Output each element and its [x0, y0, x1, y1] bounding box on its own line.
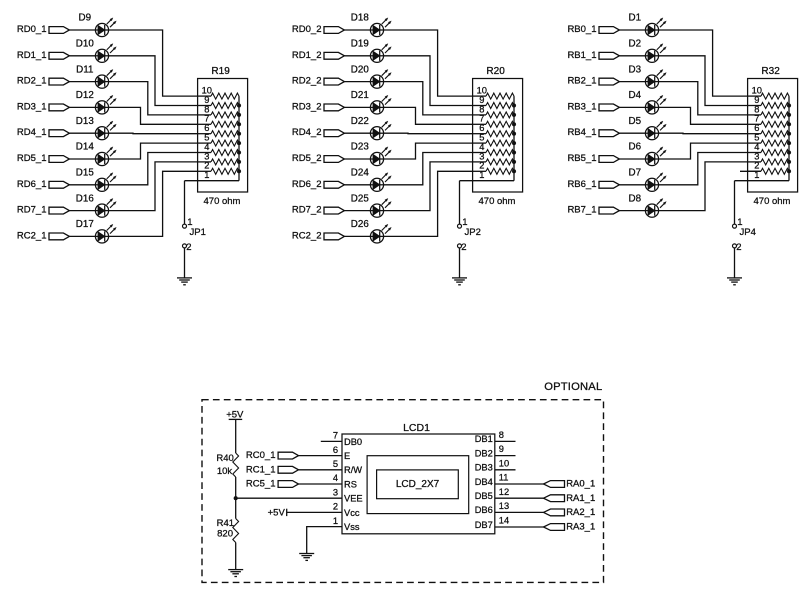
- net label RC0_1: [246, 450, 276, 461]
- LCD1 pin 2 number: [333, 502, 338, 512]
- port connector RA2_1: [544, 509, 565, 516]
- wire D24 to R20 pin 4: [384, 153, 473, 185]
- svg-text:6: 6: [333, 445, 338, 455]
- R32 resistor element pin 4: [748, 150, 789, 156]
- net label RB4_1: [567, 127, 596, 138]
- LCD1 pin 13 name DB6: [475, 505, 493, 515]
- svg-text:RD1_1: RD1_1: [17, 50, 47, 61]
- junction R32 pin 6: [787, 132, 791, 136]
- wire R41 to ground: [235, 543, 237, 570]
- junction R19 pin 9: [237, 104, 241, 108]
- net label RC5_1: [246, 479, 276, 490]
- svg-text:RD0_2: RD0_2: [292, 24, 322, 35]
- LCD display area outline: [367, 456, 469, 514]
- wire +5V to LCD1 pin 2 Vcc: [287, 511, 342, 513]
- R20 resistor element pin 6: [473, 131, 514, 137]
- net label RD4_2: [292, 127, 322, 138]
- junction R32 pin 4: [787, 151, 791, 155]
- LCD1 pin 5 number: [333, 459, 338, 469]
- net label RD6_1: [17, 179, 47, 190]
- wire LCD1 pin 13 to RA2_1: [495, 511, 544, 513]
- wire +5V to R40: [235, 419, 237, 453]
- port connector RB7_1: [599, 207, 619, 214]
- label JP2: [465, 227, 481, 238]
- wire D23 to R20 pin 5: [384, 143, 473, 159]
- net label RD1_2: [292, 50, 322, 61]
- LCD1 pin 12 name DB5: [475, 491, 493, 501]
- svg-text:LCD1: LCD1: [403, 422, 430, 434]
- port connector RB1_1: [599, 52, 619, 59]
- LED D20: [351, 64, 391, 88]
- svg-text:RD3_2: RD3_2: [292, 101, 322, 112]
- svg-text:+5V: +5V: [268, 508, 286, 519]
- port connector RB0_1: [599, 27, 619, 34]
- wire RD6_2 to D24: [344, 184, 370, 186]
- svg-text:VEE: VEE: [344, 494, 363, 504]
- ground: [727, 278, 742, 285]
- junction R19 pin 4: [237, 151, 241, 155]
- LCD1 pin 7 number: [333, 431, 338, 441]
- R20 resistor element pin 5: [473, 140, 514, 146]
- wire RD6_1 to D15: [69, 184, 95, 186]
- label JP4: [740, 227, 756, 238]
- wire D2 to R32 pin 9: [659, 56, 748, 106]
- LCD1 pin 9 name DB2: [475, 448, 493, 458]
- LED D18: [351, 13, 391, 37]
- port connector RC1_1: [278, 466, 298, 473]
- port connector RD3_1: [49, 104, 69, 111]
- wire D12 to R19 pin 7: [109, 107, 198, 124]
- wire D18 to R20 pin 10: [384, 30, 473, 96]
- svg-text:RD6_1: RD6_1: [17, 179, 47, 190]
- LCD1 pin 13 number: [499, 501, 509, 511]
- label OPTIONAL: [544, 381, 602, 393]
- svg-text:D14: D14: [76, 142, 95, 153]
- wire D5 to R32 pin 6: [659, 132, 748, 135]
- wire RD5_1 to D14: [69, 158, 95, 160]
- junction R19 pin 2: [237, 169, 241, 173]
- LED D5: [629, 116, 667, 140]
- R19 resistor element pin 10: [198, 93, 239, 99]
- wire RD7_2 to D25: [344, 210, 370, 212]
- svg-text:RA2_1: RA2_1: [566, 507, 595, 518]
- R32 resistor element pin 2: [748, 168, 789, 174]
- wire RB4_1 to D5: [619, 132, 645, 134]
- ground (Vss): [299, 554, 314, 561]
- R20 value 470 ohm: [479, 196, 516, 207]
- svg-text:RD7_1: RD7_1: [17, 205, 47, 216]
- svg-text:RB4_1: RB4_1: [567, 127, 596, 138]
- svg-text:RA1_1: RA1_1: [566, 493, 595, 504]
- LCD1 pin 10 name DB3: [475, 463, 493, 473]
- power +5V (Vcc): [268, 508, 287, 519]
- R32 pin number 4: [754, 142, 759, 152]
- net label RB5_1: [567, 153, 596, 164]
- R19 pin number 2: [204, 161, 209, 171]
- LCD1 pin 10 stub: [495, 469, 516, 471]
- LCD1 pin 2 name Vcc: [344, 508, 360, 518]
- junction R32 pin 9: [787, 104, 791, 108]
- junction R32 pin 8: [787, 113, 791, 117]
- svg-text:RD1_2: RD1_2: [292, 50, 322, 61]
- port connector RD2_2: [324, 78, 344, 85]
- R20 pin number 7: [479, 114, 484, 124]
- LED D2: [629, 39, 667, 63]
- R19 resistor element pin 2: [198, 168, 239, 174]
- net label RA2_1: [566, 507, 595, 518]
- wire RD7_1 to D16: [69, 210, 95, 212]
- LED D11: [76, 64, 116, 88]
- net label RD1_1: [17, 50, 47, 61]
- net label RD0_1: [17, 24, 47, 35]
- LED D13: [76, 116, 116, 140]
- junction R32 pin 5: [787, 141, 791, 145]
- svg-text:DB3: DB3: [475, 463, 493, 473]
- svg-text:RB6_1: RB6_1: [567, 179, 596, 190]
- R32 resistor element pin 3: [748, 159, 789, 165]
- R20 resistor element pin 4: [473, 150, 514, 156]
- wire RC2_2 to D26: [344, 235, 370, 237]
- LED D15: [76, 168, 116, 192]
- LCD1 pin 11 number: [499, 473, 509, 483]
- R19 resistor element pin 3: [198, 159, 239, 165]
- junction R20 pin 6: [512, 132, 516, 136]
- junction R20 pin 3: [512, 160, 516, 164]
- ground: [177, 278, 192, 285]
- port connector RD1_1: [49, 52, 69, 59]
- R19 resistor element pin 6: [198, 131, 239, 137]
- svg-text:14: 14: [499, 516, 509, 526]
- R32 resistor element pin 10: [748, 93, 789, 99]
- R19 pin number 5: [204, 133, 209, 143]
- svg-text:E: E: [344, 451, 350, 461]
- svg-text:D22: D22: [351, 116, 369, 127]
- wire RB7_1 to D8: [619, 210, 645, 212]
- junction R20 pin 5: [512, 141, 516, 145]
- R32 pin number 8: [754, 104, 759, 114]
- LCD1 pin 1 number: [333, 516, 338, 526]
- LCD1 pin 3 number: [333, 487, 338, 497]
- svg-text:RD4_2: RD4_2: [292, 127, 322, 138]
- port connector RD2_1: [49, 78, 69, 85]
- R20 resistor element pin 2: [473, 168, 514, 174]
- LED D26: [351, 219, 391, 243]
- svg-text:JP2: JP2: [465, 227, 481, 238]
- svg-text:RD7_2: RD7_2: [292, 205, 322, 216]
- svg-text:RB1_1: RB1_1: [567, 50, 596, 61]
- svg-text:D8: D8: [629, 193, 642, 204]
- junction R20 pin 4: [512, 151, 516, 155]
- svg-text:D20: D20: [351, 64, 370, 75]
- wire RD3_2 to D21: [344, 106, 370, 108]
- LCD1 pin 9 number: [499, 444, 504, 454]
- wire D11 to R19 pin 8: [109, 82, 198, 115]
- port connector RD5_2: [324, 156, 344, 163]
- LED D23: [351, 142, 391, 166]
- LCD1 pin 11 name DB4: [475, 477, 493, 487]
- R19 value 470 ohm: [204, 196, 241, 207]
- wire D14 to R19 pin 5: [109, 143, 198, 159]
- wire D16 to R19 pin 3: [109, 162, 198, 211]
- wire RC1_1 to LCD1 pin 5: [299, 469, 343, 471]
- R20 pin number 9: [479, 95, 484, 105]
- LCD display inner rectangle: [377, 470, 459, 499]
- resistor network R32: [748, 66, 798, 192]
- svg-text:RB0_1: RB0_1: [567, 24, 596, 35]
- svg-text:10: 10: [499, 458, 509, 468]
- R20 pin number 2: [479, 161, 484, 171]
- dashed OPTIONAL region boundary: [202, 400, 604, 583]
- net label RA0_1: [566, 479, 595, 490]
- LCD1 pin 10 number: [499, 458, 509, 468]
- port connector RA0_1: [544, 481, 565, 488]
- R32 resistor element pin 8: [748, 112, 789, 118]
- svg-text:2: 2: [736, 242, 741, 253]
- wire RD3_1 to D12: [69, 106, 95, 108]
- junction node VEE divider: [234, 496, 238, 500]
- svg-text:D3: D3: [629, 64, 642, 75]
- wire LCD1 pin 11 to RA0_1: [495, 483, 544, 485]
- net label RC2_1: [17, 230, 47, 241]
- svg-text:470 ohm: 470 ohm: [479, 196, 516, 207]
- wire node to LCD1 pin 3 VEE: [236, 497, 342, 499]
- wire RC5_1 to LCD1 pin 4: [299, 483, 343, 485]
- R32 resistor element pin 5: [748, 140, 789, 146]
- junction R20 pin 8: [512, 113, 516, 117]
- port connector RB4_1: [599, 130, 619, 137]
- net label RD5_1: [17, 153, 47, 164]
- jumper JP2 pin 2: [458, 242, 467, 253]
- svg-text:JP1: JP1: [190, 227, 206, 238]
- port connector RC2_2: [324, 233, 344, 240]
- R19 pin number 9: [204, 95, 209, 105]
- net label RB7_1: [567, 205, 596, 216]
- svg-text:D18: D18: [351, 13, 370, 24]
- LCD1 pin 12 number: [499, 487, 509, 497]
- svg-text:1: 1: [479, 170, 484, 180]
- svg-text:Vcc: Vcc: [344, 508, 360, 518]
- svg-text:JP4: JP4: [740, 227, 756, 238]
- svg-text:D6: D6: [629, 142, 642, 153]
- resistor network R19: [198, 66, 248, 192]
- R19 resistor element pin 9: [198, 103, 239, 109]
- net label RA3_1: [566, 522, 595, 533]
- wire JP2 pin 2 to ground: [459, 248, 461, 278]
- port connector RC0_1: [278, 452, 298, 459]
- wire R19 pin 1 to JP1: [184, 181, 186, 225]
- svg-text:D12: D12: [76, 90, 94, 101]
- svg-text:5: 5: [333, 459, 338, 469]
- R19 pin number 1: [204, 170, 209, 180]
- wire R20 pin 1 to JP2: [459, 181, 461, 225]
- R20 common bus: [513, 96, 515, 181]
- R32 pin number 3: [754, 151, 759, 161]
- wire RB0_1 to D1: [619, 29, 645, 31]
- svg-text:RC5_1: RC5_1: [246, 479, 276, 490]
- svg-text:R19: R19: [211, 66, 230, 77]
- svg-text:D16: D16: [76, 193, 95, 204]
- jumper JP1 pin 1: [183, 217, 193, 228]
- svg-text:3: 3: [333, 487, 338, 497]
- wire D19 to R20 pin 9: [384, 56, 473, 106]
- svg-text:RD6_2: RD6_2: [292, 179, 322, 190]
- svg-text:RB7_1: RB7_1: [567, 205, 596, 216]
- svg-text:RD5_1: RD5_1: [17, 153, 47, 164]
- wire RC2_1 to D17: [69, 235, 95, 237]
- R32 pin number 7: [754, 114, 759, 124]
- power +5V (R40 top): [226, 409, 244, 420]
- svg-text:D23: D23: [351, 142, 370, 153]
- svg-text:RD2_1: RD2_1: [17, 76, 47, 87]
- LED D19: [351, 39, 391, 63]
- R32 pin number 2: [754, 161, 759, 171]
- wire R40 to node VEE: [235, 477, 237, 519]
- LCD1 pin 9 stub: [495, 455, 516, 457]
- LCD1 pin 8 stub: [495, 440, 516, 442]
- resistor network R20: [473, 66, 523, 192]
- ground: [452, 278, 467, 285]
- net label RB3_1: [567, 101, 596, 112]
- wire R20 pin 1 common: [460, 180, 515, 182]
- LED D6: [629, 142, 667, 166]
- wire RD5_2 to D23: [344, 158, 370, 160]
- svg-text:D5: D5: [629, 116, 642, 127]
- port connector RD7_1: [49, 207, 69, 214]
- net label RA1_1: [566, 493, 595, 504]
- LCD1 pin 14 name DB7: [475, 520, 493, 530]
- svg-text:LCD_2X7: LCD_2X7: [396, 479, 440, 490]
- wire JP4 pin 2 to ground: [734, 248, 736, 278]
- svg-text:D25: D25: [351, 193, 370, 204]
- R20 pin number 5: [479, 133, 484, 143]
- net label RD3_2: [292, 101, 322, 112]
- LED D8: [629, 193, 667, 217]
- R32 pin number 9: [754, 95, 759, 105]
- svg-text:D19: D19: [351, 39, 369, 50]
- svg-text:2: 2: [333, 502, 338, 512]
- svg-text:DB6: DB6: [475, 505, 493, 515]
- ground (below R41): [228, 570, 243, 577]
- wire RB3_1 to D4: [619, 106, 645, 108]
- LCD1 pin 14 number: [499, 516, 509, 526]
- svg-text:2: 2: [461, 242, 466, 253]
- LED D14: [76, 142, 116, 166]
- LCD1 pin 4 number: [333, 473, 338, 483]
- svg-text:OPTIONAL: OPTIONAL: [544, 381, 602, 393]
- svg-text:R20: R20: [486, 66, 505, 77]
- svg-text:2: 2: [186, 242, 191, 253]
- resistor R41: [217, 518, 239, 542]
- wire RD1_1 to D10: [69, 55, 95, 57]
- LED D7: [629, 168, 667, 192]
- port connector RB3_1: [599, 104, 619, 111]
- svg-text:RA3_1: RA3_1: [566, 522, 595, 533]
- LED D17: [76, 219, 116, 243]
- svg-text:DB1: DB1: [475, 434, 493, 444]
- svg-text:DB5: DB5: [475, 491, 493, 501]
- R19 pin number 3: [204, 151, 209, 161]
- svg-text:D1: D1: [629, 13, 642, 24]
- svg-text:RD2_2: RD2_2: [292, 76, 322, 87]
- R32 pin 2 stub (n.c.): [740, 170, 761, 172]
- net label RC2_2: [292, 230, 322, 241]
- R20 resistor element pin 8: [473, 112, 514, 118]
- net label RB6_1: [567, 179, 596, 190]
- port connector RD3_2: [324, 104, 344, 111]
- junction R32 pin 2: [787, 169, 791, 173]
- svg-text:RC0_1: RC0_1: [246, 450, 276, 461]
- svg-text:R/W: R/W: [344, 465, 362, 475]
- net label RD4_1: [17, 127, 47, 138]
- svg-text:RC1_1: RC1_1: [246, 464, 276, 475]
- port connector RB5_1: [599, 156, 619, 163]
- R19 resistor element pin 7: [198, 121, 239, 127]
- LCD1 pin 7 stub: [321, 440, 342, 442]
- R19 pin number 7: [204, 114, 209, 124]
- port connector RD5_1: [49, 156, 69, 163]
- wire D9 to R19 pin 10: [109, 30, 198, 96]
- wire RD4_1 to D13: [69, 132, 95, 134]
- wire LCD1 pin 12 to RA1_1: [495, 497, 544, 499]
- junction R19 pin 8: [237, 113, 241, 117]
- svg-text:D26: D26: [351, 219, 370, 230]
- port connector RD6_2: [324, 181, 344, 188]
- port connector RA3_1: [544, 524, 565, 531]
- LCD1 pin 8 number: [499, 430, 504, 440]
- resistor R40: [216, 453, 238, 477]
- wire D4 to R32 pin 7: [659, 107, 748, 124]
- net label RD2_2: [292, 76, 322, 87]
- wire RD0_2 to D18: [344, 29, 370, 31]
- jumper JP2 pin 1: [458, 217, 468, 228]
- port connector RB2_1: [599, 78, 619, 85]
- wire D22 to R20 pin 6: [384, 132, 473, 135]
- wire RC0_1 to LCD1 pin 6: [299, 455, 343, 457]
- wire D1 to R32 pin 10: [659, 30, 748, 96]
- svg-text:470 ohm: 470 ohm: [754, 196, 791, 207]
- svg-text:D11: D11: [76, 64, 93, 75]
- R32 resistor element pin 9: [748, 103, 789, 109]
- wire D13 to R19 pin 6: [109, 132, 198, 135]
- svg-text:9: 9: [499, 444, 504, 454]
- LED D10: [76, 39, 116, 63]
- LED D3: [629, 64, 667, 88]
- wire D8 to R32 pin 3: [659, 162, 748, 211]
- LCD1 pin 3 name VEE: [344, 494, 363, 504]
- svg-text:D9: D9: [79, 13, 92, 24]
- svg-text:D7: D7: [629, 168, 642, 179]
- R19 resistor element pin 8: [198, 112, 239, 118]
- R19 resistor element pin 4: [198, 150, 239, 156]
- R19 common bus: [238, 96, 240, 181]
- svg-text:D24: D24: [351, 168, 370, 179]
- port connector RD4_1: [49, 130, 69, 137]
- R32 pin number 1: [754, 170, 759, 180]
- R20 pin number 8: [479, 104, 484, 114]
- wire RB1_1 to D2: [619, 55, 645, 57]
- junction R19 pin 6: [237, 132, 241, 136]
- svg-text:820: 820: [217, 528, 233, 539]
- LED D22: [351, 116, 391, 140]
- LCD1 pin 6 number: [333, 445, 338, 455]
- svg-text:13: 13: [499, 501, 509, 511]
- R19 pin number 10: [202, 86, 212, 96]
- junction R19 pin 7: [237, 122, 241, 126]
- svg-text:RD4_1: RD4_1: [17, 127, 47, 138]
- wire RD2_2 to D20: [344, 81, 370, 83]
- svg-text:RB2_1: RB2_1: [567, 76, 596, 87]
- junction R19 pin 5: [237, 141, 241, 145]
